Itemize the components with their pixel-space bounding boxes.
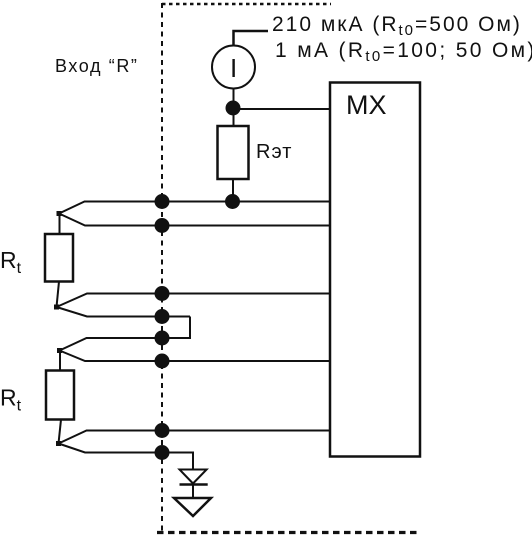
junction dot wire7 on boundary xyxy=(155,423,170,438)
junction dot wire6 on boundary xyxy=(155,354,170,369)
wire: diode to ground xyxy=(192,485,194,499)
svg-text:1 мА (Rt0=100; 50 Ом): 1 мА (Rt0=100; 50 Ом) xyxy=(275,39,532,65)
wire: current source to node A xyxy=(233,88,235,108)
wire 5: Rt2 pair-a upper xyxy=(60,338,163,351)
node B junction dot xyxy=(225,194,240,209)
junction dot wire2 on boundary xyxy=(155,218,170,233)
junction dot wire4 on boundary xyxy=(155,309,170,324)
leader line from current source to value label xyxy=(234,31,269,46)
svg-text:Rэт: Rэт xyxy=(256,141,292,163)
ground arrow xyxy=(174,498,211,516)
splice point Rt1 top xyxy=(57,211,62,216)
svg-text:I: I xyxy=(230,53,237,83)
wire: splice to Rt1 xyxy=(59,214,61,235)
dashed boundary left edge xyxy=(161,3,163,534)
wire: Rэт to node B xyxy=(232,179,234,202)
node A junction dot xyxy=(226,101,241,116)
splice point Rt2 top xyxy=(57,348,62,353)
wire 7: Rt2 pair-b upper to MX pin 6 xyxy=(59,431,331,444)
MX box U1 xyxy=(330,83,420,457)
wire: Rt2 bottom to splice xyxy=(59,420,62,444)
svg-text:МХ: МХ xyxy=(346,90,387,120)
wire 6: Rt2 pair-a lower to MX pin 5 xyxy=(60,351,331,362)
splice point Rt1 bottom xyxy=(54,305,59,310)
resistor Rt2 xyxy=(46,371,74,420)
wire 3: Rt1 pair-b upper to MX pin 4 xyxy=(57,294,331,308)
wire 1: Rt1 pair-a upper to MX pin 2 xyxy=(59,202,330,214)
dashed boundary top edge xyxy=(162,3,331,6)
junction dot wire8 on boundary xyxy=(155,445,170,460)
wire: node A to MX pin 1 xyxy=(233,108,330,110)
wire 2: Rt1 pair-a lower to MX pin 3 xyxy=(59,214,330,226)
wire 4: Rt1 pair-b lower to jumper xyxy=(57,307,191,317)
resistor Rэт xyxy=(218,126,249,179)
wire: Rt1 bottom to splice xyxy=(57,282,60,308)
wire 8: Rt2 pair-b lower to diode xyxy=(59,444,194,470)
junction dot wire5 on boundary xyxy=(155,331,170,346)
junction dot wire3 on boundary xyxy=(155,286,170,301)
current source I1 xyxy=(212,46,255,89)
svg-text:Вход “R”: Вход “R” xyxy=(55,56,139,76)
resistor Rt1 xyxy=(45,234,73,282)
wire: splice to Rt2 xyxy=(59,351,61,371)
wire: node A to Rэт xyxy=(233,108,235,126)
dashed boundary bottom edge xyxy=(157,531,417,534)
diode VD1 xyxy=(180,470,208,485)
jumper loop wire4 to wire5 xyxy=(162,317,190,339)
junction dot wire1 on boundary xyxy=(155,194,170,209)
svg-text:210 мкА (Rt0=500 Ом): 210 мкА (Rt0=500 Ом) xyxy=(272,13,522,39)
splice point Rt2 bottom xyxy=(56,441,61,446)
